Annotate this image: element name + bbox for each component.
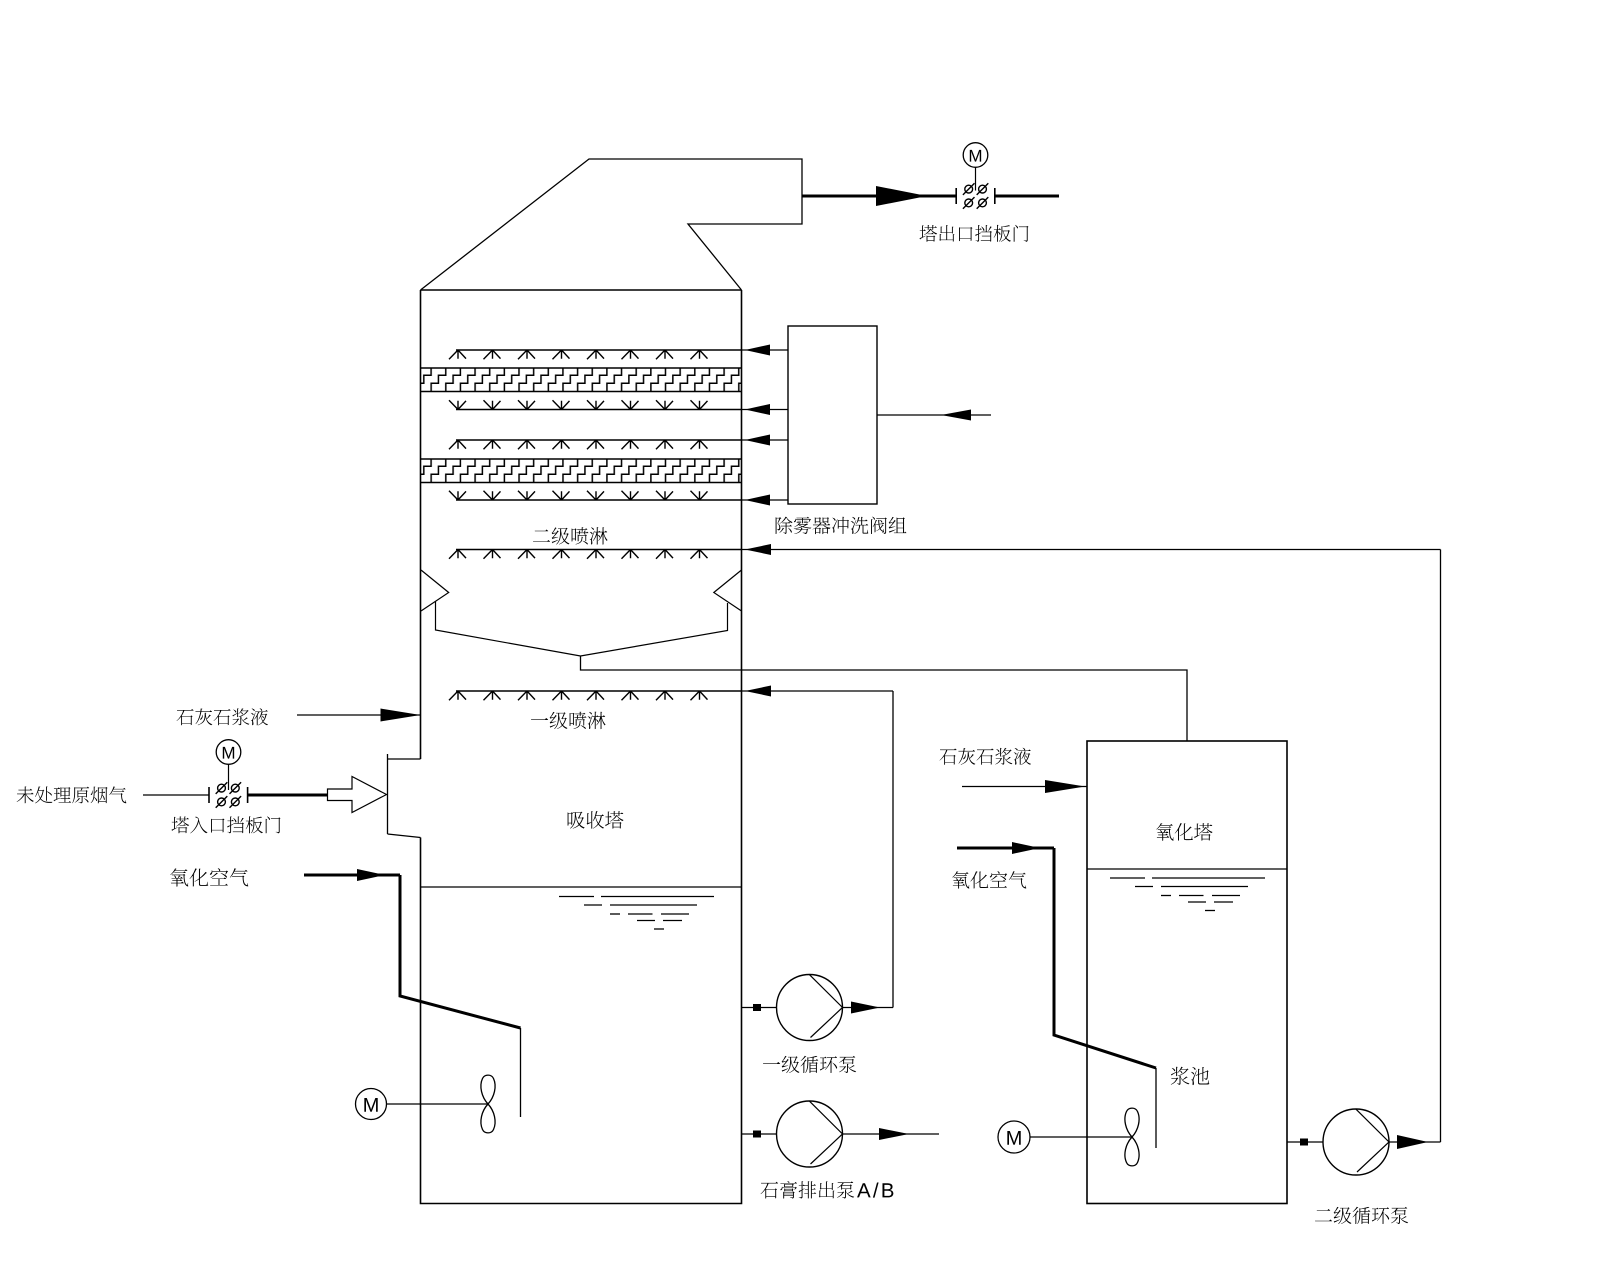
raw flue gas line [143,794,210,796]
ME wash header 1 (down) [456,349,742,351]
P2 discharge (gypsum to dewatering) [843,1133,940,1135]
inlet damper M motor [216,740,241,790]
label 石灰石浆液 (oxidation feed) [940,748,1031,765]
absorber roof and outlet duct [421,159,803,290]
riser pipe of pump P1 [892,691,894,1008]
collector funnel [436,602,728,657]
label 吸收塔 [568,811,624,829]
label 塔出口挡板门 [920,225,1029,242]
flush water supply line [877,414,991,416]
P3 suction nozzle [1287,1141,1323,1143]
second stage spray header [456,549,742,551]
tower inlet nozzle [388,754,421,838]
oxidation air line to slurry pool [957,847,1054,850]
riser pipe of pump P3 [1440,550,1442,1143]
pool agitator motor M [998,1121,1030,1153]
flush line into tower at y=350 [742,349,789,351]
P1 suction nozzle [742,1007,777,1009]
P3 discharge [1389,1141,1441,1143]
label 石膏排出泵A/B [761,1181,855,1198]
label 二级循环泵 [1315,1207,1408,1224]
mist eliminator flush valve group box [788,326,877,504]
label 塔入口挡板门 [172,816,281,833]
first stage feed line from pump P1 [742,690,894,692]
label 二级喷淋 [533,527,608,544]
P1 discharge [843,1007,894,1009]
oxidation air lance (absorber) [400,875,521,1028]
label 一级循环泵 [763,1056,856,1073]
oxidation air line to absorber [304,874,400,877]
oxidation water surface marks [1110,878,1265,911]
oxidation tower shell [1087,741,1287,1204]
mist eliminator layer 1 [421,368,742,392]
label 浆池 [1171,1067,1209,1085]
flue gas duct thick line [248,794,328,797]
collector left chevron [421,570,449,611]
outlet damper M motor [963,143,988,191]
label 未处理原烟气 [17,786,127,803]
mist eliminator layer 2 [421,459,742,483]
pump P2 石膏排出泵 [777,1101,843,1167]
absorber tower shell [421,290,742,1204]
label 石灰石浆液 (absorber feed) [177,708,268,725]
label 氧化空气 (absorber) [170,868,248,887]
limestone slurry line to oxidation tower [962,786,1087,788]
second stage feed line from pump P3 [742,549,1441,551]
clean gas flow arrow [876,186,927,206]
collector right chevron [714,570,742,611]
flush line into tower at y=500 [742,499,789,501]
flush line into tower at y=409.5 [742,409,789,411]
absorber liquid level line [421,886,742,888]
outlet damper valve [956,183,995,208]
pump P3 二级循环泵 [1323,1109,1389,1175]
absorber agitator propeller [481,1075,495,1133]
absorber agitator shaft [387,1103,489,1105]
pump P1 一级循环泵 [777,975,843,1041]
label 除雾器冲洗阀组 [776,517,907,535]
first stage spray header [456,690,742,692]
ME wash header 4 (up) [456,499,742,501]
absorber water surface marks [559,897,714,930]
label 氧化空气 (oxidation) [952,871,1026,889]
pool agitator propeller [1125,1108,1139,1166]
ME wash header 3 (down) [456,439,742,441]
oxidation tower liquid level [1087,868,1287,870]
absorber agitator motor M [356,1089,387,1120]
flush line into tower at y=440 [742,439,789,441]
label 一级喷淋 [531,712,606,729]
limestone slurry line to absorber [297,714,421,716]
ME wash header 2 (up) [456,409,742,411]
label 氧化塔 [1156,823,1212,841]
P2 suction nozzle [742,1133,777,1135]
clean gas outlet line [802,195,956,198]
pool agitator shaft [1030,1136,1132,1138]
flue gas open inlet arrow [328,777,387,813]
oxidation air lance (pool) [1054,848,1156,1068]
collector drain to oxidation tower [581,656,1188,741]
inlet damper valve [209,782,248,807]
